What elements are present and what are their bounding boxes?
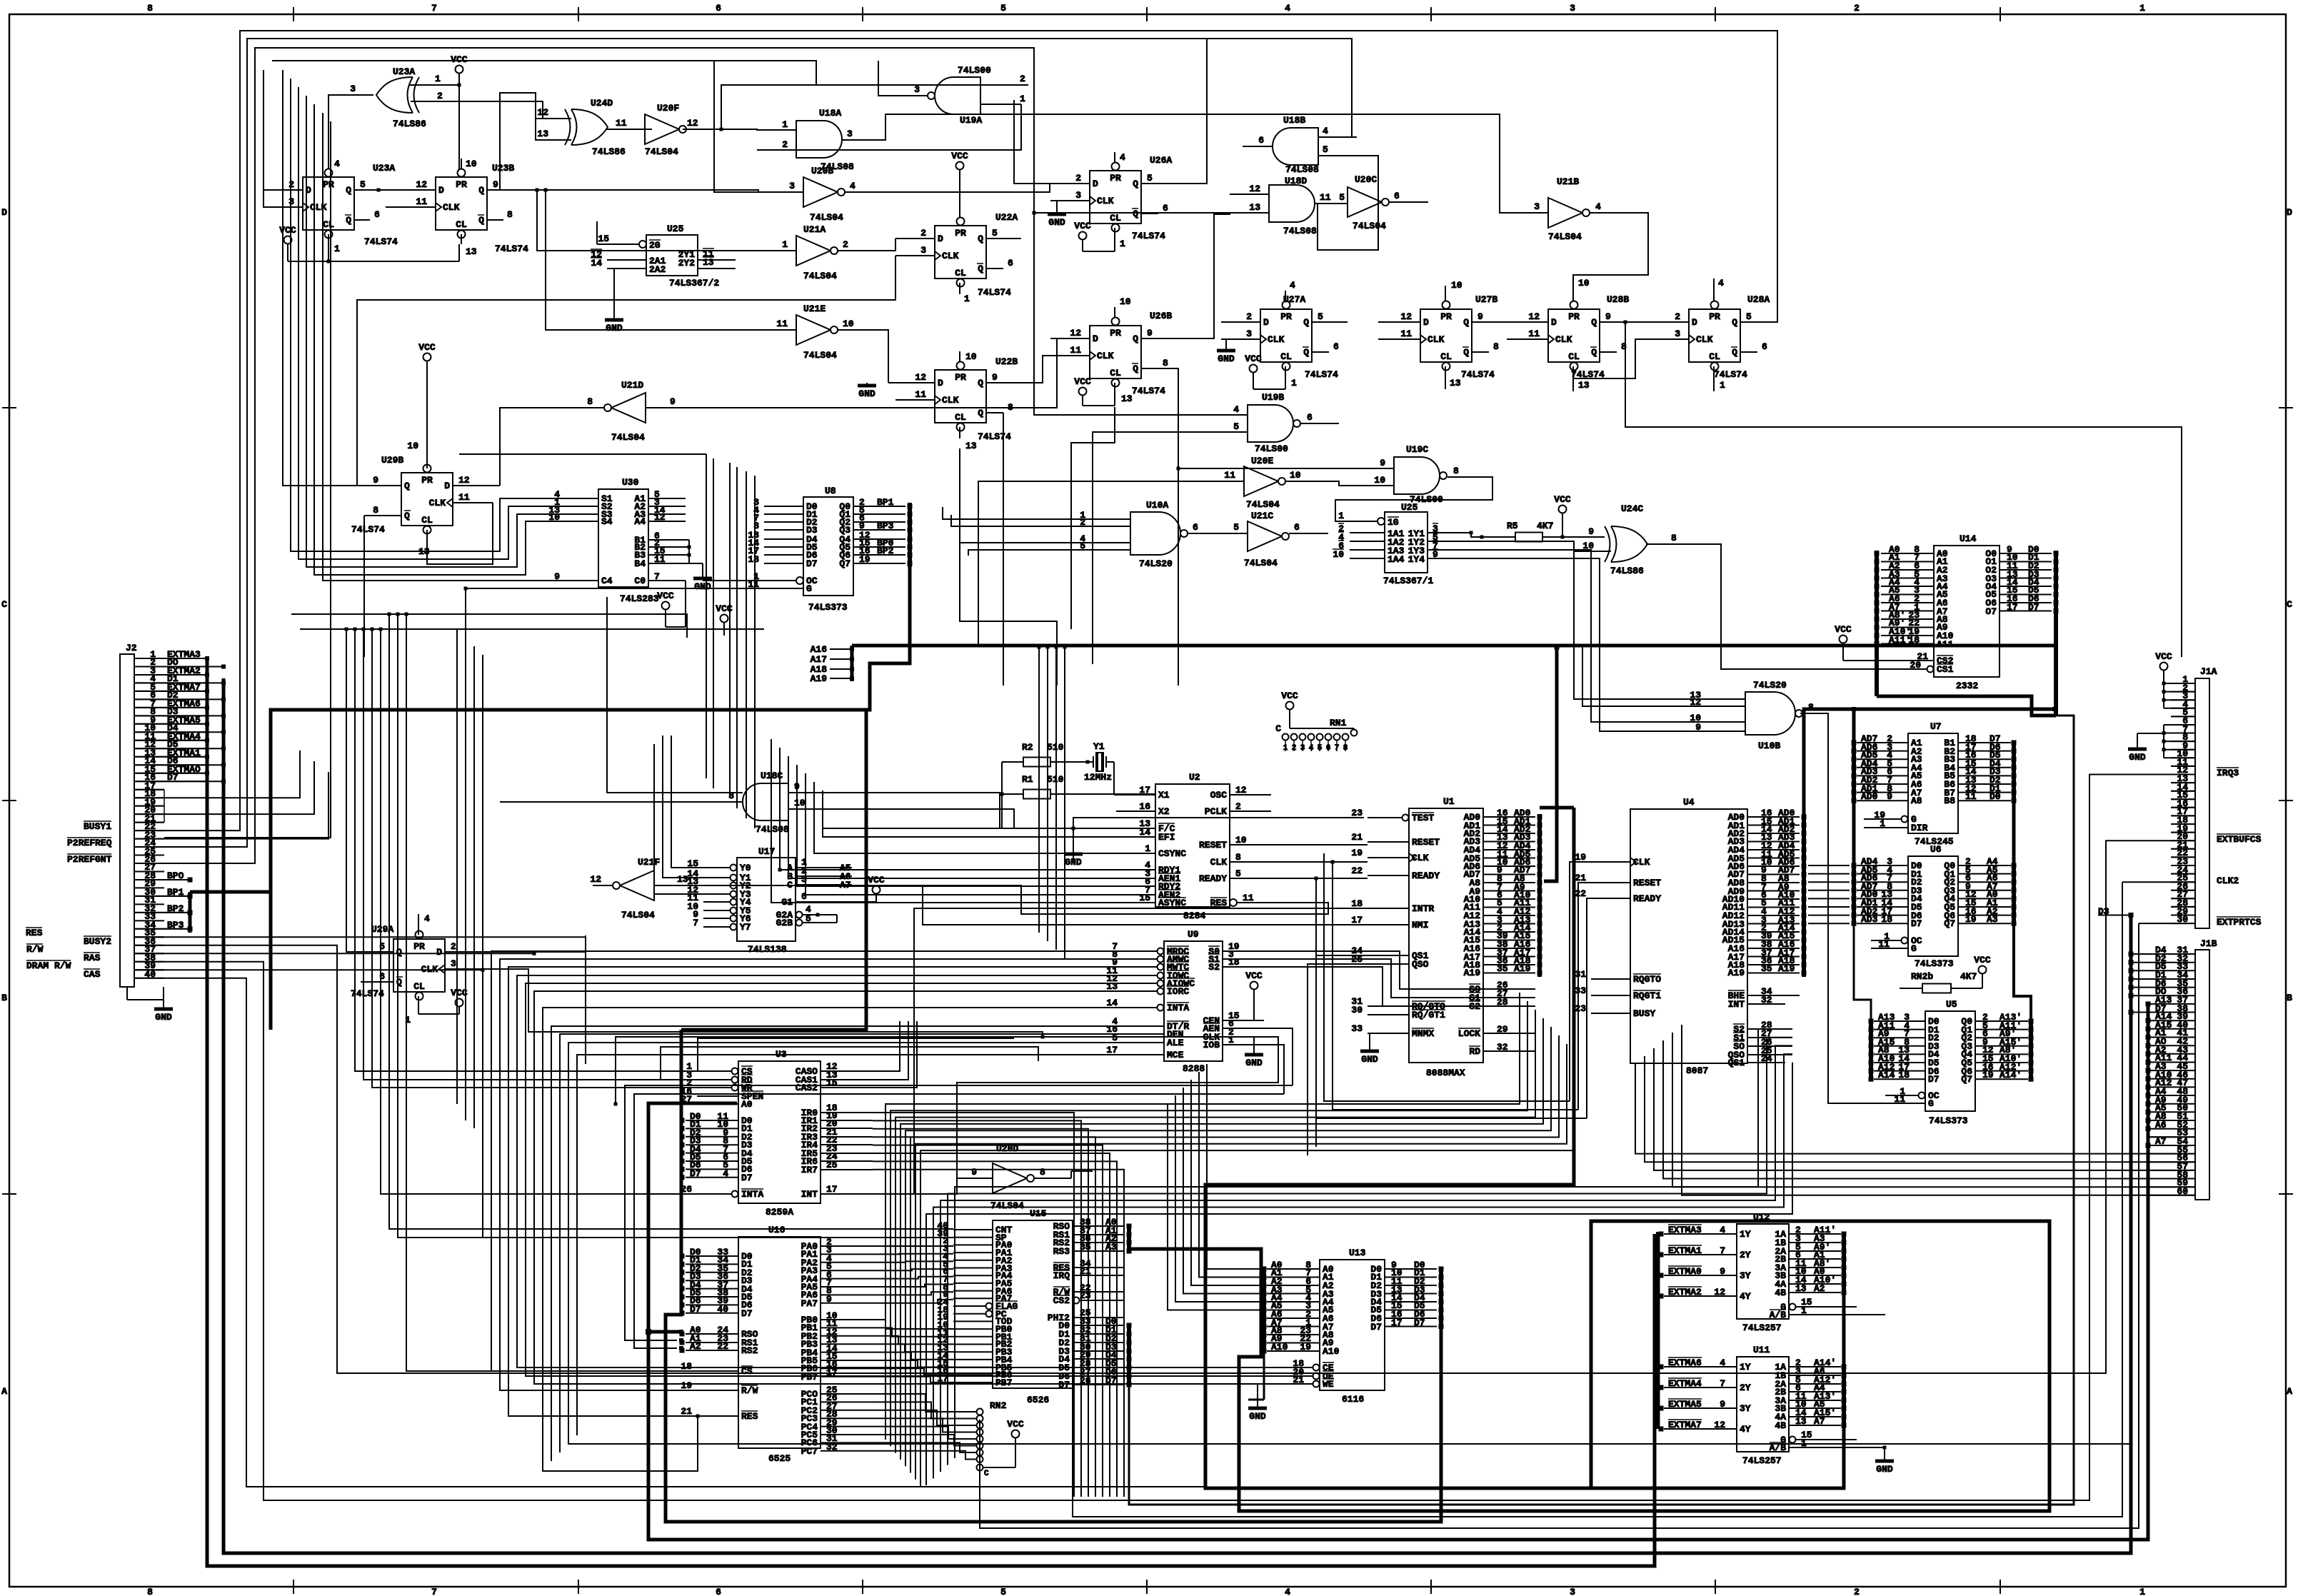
wire U16 PB1 to U15 PB1 — [873, 1328, 953, 1336]
bus A8-A15 U4 to U14 — [1804, 709, 2054, 814]
svg-text:1: 1 — [2139, 1587, 2145, 1596]
svg-text:GND: GND — [1218, 353, 1235, 364]
wire U21F in from U2 RES — [696, 885, 1328, 914]
wire U2 AEN1 bundle — [788, 756, 1116, 878]
svg-text:PCLK: PCLK — [1205, 806, 1227, 817]
svg-text:4: 4 — [1285, 3, 1290, 14]
wire D3 J1A29 — [2098, 913, 2134, 918]
svg-text:EXTMA3: EXTMA3 — [1668, 1225, 1702, 1235]
svg-text:U20E: U20E — [1251, 456, 1273, 466]
svg-text:Q: Q — [346, 185, 351, 196]
wire U4 bus to U6 D3 — [1808, 890, 1850, 891]
svg-text:Q: Q — [1133, 179, 1138, 189]
svg-text:CSYNC: CSYNC — [1158, 848, 1186, 859]
stubs J1B lower — [2149, 1137, 2195, 1195]
svg-text:QS1: QS1 — [1728, 1058, 1745, 1068]
fpu U4 (8087) — [1575, 797, 1800, 1076]
svg-text:U28B: U28B — [1607, 294, 1629, 305]
svg-text:12: 12 — [915, 372, 926, 383]
svg-text:VCC: VCC — [279, 225, 296, 236]
svg-text:5: 5 — [1235, 868, 1241, 879]
svg-text:R2: R2 — [1022, 742, 1033, 753]
svg-text:CL: CL — [1568, 351, 1580, 362]
svg-text:13: 13 — [1249, 202, 1260, 213]
svg-text:VCC: VCC — [657, 591, 674, 601]
svg-text:74LS08: 74LS08 — [1285, 164, 1319, 175]
VCC near U8 — [716, 603, 733, 636]
wire U28B Q to U28A D — [1600, 321, 1650, 324]
VCC rail above U23B — [451, 54, 468, 169]
svg-text:U18D: U18D — [1285, 176, 1307, 186]
svg-text:17: 17 — [826, 1184, 838, 1195]
svg-text:U9: U9 — [1188, 929, 1199, 940]
svg-text:14: 14 — [1139, 827, 1150, 838]
svg-text:VCC: VCC — [1074, 376, 1091, 387]
crystal Y1 12MHz — [1084, 741, 1114, 783]
GND at U30 B inputs — [688, 540, 713, 592]
svg-text:EXTMA6: EXTMA6 — [1668, 1357, 1702, 1368]
svg-text:Q: Q — [978, 378, 983, 388]
GND below J2 — [127, 987, 173, 1023]
svg-text:R5: R5 — [1507, 521, 1518, 531]
wire U2 READY to U1 — [1271, 877, 1368, 880]
wire U20E out to U19C in10 — [1325, 481, 1355, 486]
svg-text:CAS: CAS — [84, 969, 101, 980]
inverter U21F (74LS04) — [590, 857, 696, 920]
svg-text:9: 9 — [1433, 549, 1438, 560]
svg-text:MNMX: MNMX — [1412, 1028, 1434, 1039]
wire U3 CS up-right — [698, 1038, 1014, 1071]
wire U3 INTA vertical — [379, 628, 698, 1195]
svg-text:5: 5 — [1000, 1587, 1006, 1596]
svg-text:4: 4 — [1720, 1225, 1725, 1235]
wire vertical below U8 4 — [746, 571, 747, 818]
svg-text:11: 11 — [915, 389, 926, 400]
svg-text:INT: INT — [1728, 999, 1745, 1010]
svg-text:C4: C4 — [601, 576, 613, 586]
bus A16-A19 — [811, 644, 2057, 711]
wire U14 CS1 from U24C — [1660, 544, 1892, 669]
svg-text:CLK: CLK — [443, 202, 460, 213]
svg-text:D7: D7 — [690, 1304, 701, 1315]
wire J1B pin 59 staircase — [1672, 1033, 2149, 1187]
svg-text:19: 19 — [859, 554, 870, 565]
svg-text:U13: U13 — [1349, 1248, 1366, 1258]
svg-text:U29B: U29B — [381, 455, 403, 466]
svg-text:P2REFGNT: P2REFGNT — [67, 854, 112, 865]
svg-text:40: 40 — [717, 1304, 728, 1315]
svg-text:10: 10 — [965, 351, 977, 362]
wire U16 PA4 to U15 PA4 — [873, 1277, 953, 1279]
svg-text:1: 1 — [964, 293, 970, 304]
svg-text:7: 7 — [1720, 1378, 1725, 1389]
svg-text:9: 9 — [1605, 311, 1611, 322]
bus bar BP at U8 outputs — [908, 503, 913, 567]
svg-text:9: 9 — [1477, 311, 1483, 322]
svg-text:EXTMA1: EXTMA1 — [1668, 1245, 1702, 1256]
svg-text:10: 10 — [1374, 475, 1385, 486]
svg-text:PR: PR — [955, 228, 966, 239]
wire U16 PA5 to U15 PA5 — [873, 1285, 953, 1288]
svg-text:G: G — [1911, 943, 1917, 954]
wire U3 RD vertical — [362, 628, 698, 1080]
svg-text:74LS04: 74LS04 — [990, 1200, 1024, 1211]
svg-text:9: 9 — [1720, 1266, 1725, 1277]
svg-text:15: 15 — [1139, 893, 1150, 903]
wire U4 CLK feed — [1324, 853, 1591, 1101]
wire U1 TEST left — [1073, 818, 1364, 860]
svg-text:A: A — [1, 1386, 7, 1397]
svg-text:13: 13 — [1795, 1283, 1807, 1294]
svg-text:7: 7 — [431, 3, 437, 14]
svg-text:8288: 8288 — [1183, 1063, 1205, 1074]
svg-text:Q7: Q7 — [1961, 1074, 1972, 1085]
svg-text:D: D — [1423, 317, 1429, 328]
resistor R2 510 — [1002, 742, 1088, 767]
wire U10A in5 from BP — [968, 550, 1093, 556]
adder U30 (74LS283) — [548, 477, 689, 604]
svg-text:A19: A19 — [1728, 968, 1745, 978]
svg-text:Q: Q — [478, 185, 484, 196]
wire staircase U4 S/QS line 4 — [926, 1063, 1792, 1485]
svg-text:1: 1 — [1801, 1305, 1807, 1316]
wire U22B Q to U26B CLK — [1021, 356, 1050, 383]
svg-text:CAS2: CAS2 — [796, 1083, 818, 1093]
svg-text:4: 4 — [1290, 280, 1295, 291]
wire U10B in12 from A16 bus — [1582, 646, 1707, 706]
flip-flop U29B (74LS74) — [351, 342, 500, 557]
svg-text:CLK: CLK — [1696, 334, 1713, 345]
wire U19B in5 down — [1093, 432, 1208, 664]
svg-text:2: 2 — [843, 239, 848, 250]
svg-text:5: 5 — [1339, 192, 1345, 203]
wire loop CAS bottom — [134, 978, 1205, 1487]
svg-text:G2B: G2B — [776, 918, 793, 928]
svg-text:LOCK: LOCK — [1458, 1028, 1480, 1039]
svg-text:U10A: U10A — [1146, 500, 1168, 511]
svg-text:IRQ: IRQ — [1053, 1270, 1070, 1281]
wire A-bus tap down 2 — [1055, 646, 1058, 950]
svg-text:VCC: VCC — [1007, 1419, 1024, 1430]
svg-text:2: 2 — [1854, 1587, 1860, 1596]
svg-text:74LS373: 74LS373 — [808, 602, 848, 613]
wire U4 bus to U6 D7 — [1808, 923, 1850, 924]
svg-text:6: 6 — [716, 1587, 721, 1596]
resistor RN2b 4K7 — [1900, 955, 1991, 993]
svg-text:11: 11 — [1894, 1094, 1905, 1105]
svg-text:A8: A8 — [1911, 796, 1922, 806]
svg-text:A19: A19 — [1464, 968, 1481, 978]
latch U6 (74LS373) — [1852, 844, 2017, 969]
wire U13 A5 feed — [1168, 1103, 1260, 1310]
svg-text:U26A: U26A — [1150, 155, 1172, 166]
wire U10B out to U5 G — [1800, 713, 1885, 1103]
wire U15 SP vertical — [396, 613, 954, 1238]
inverter U21A (74LS04) — [757, 224, 878, 281]
svg-text:9: 9 — [1588, 526, 1594, 537]
GND at J1A pins 6-10 — [2128, 725, 2195, 763]
svg-text:Q: Q — [978, 234, 983, 244]
bus link U7-U6 left — [1852, 800, 1856, 865]
svg-text:IR7: IR7 — [801, 1165, 818, 1175]
wire XOR in1 to VCC rail — [409, 84, 459, 86]
svg-text:D7: D7 — [1928, 1074, 1940, 1085]
svg-text:13: 13 — [703, 257, 714, 268]
svg-text:74LS08: 74LS08 — [756, 824, 789, 835]
tpi U16 (6525) — [680, 1225, 873, 1464]
svg-text:CL: CL — [1110, 213, 1121, 224]
wire U16 PC2 to RN2 — [873, 1410, 977, 1425]
wire staircase U4 S/QS line 0 — [955, 1029, 1792, 1458]
svg-text:15: 15 — [598, 234, 609, 244]
svg-text:13: 13 — [965, 441, 977, 451]
svg-text:12: 12 — [1235, 785, 1247, 796]
wire U21D out to U29B D — [500, 408, 586, 486]
svg-text:4: 4 — [1323, 126, 1328, 136]
svg-text:Q: Q — [978, 264, 983, 274]
wire U9 DT/R down — [551, 1026, 1123, 1461]
cia U15 (6526) — [937, 1208, 1131, 1405]
VCC at J1A pins 1-4 — [2155, 651, 2195, 708]
wire into U18C in9 left — [607, 597, 743, 793]
svg-text:6: 6 — [1163, 203, 1168, 214]
svg-text:CLK: CLK — [942, 395, 959, 406]
svg-text:BP2: BP2 — [877, 546, 894, 556]
svg-text:3: 3 — [451, 958, 456, 969]
svg-text:U18A: U18A — [819, 108, 841, 119]
svg-text:READY: READY — [1633, 893, 1661, 904]
svg-text:74LS367/2: 74LS367/2 — [669, 278, 719, 288]
svg-text:5: 5 — [1000, 3, 1006, 14]
svg-text:CS2: CS2 — [1053, 1295, 1070, 1306]
wire U9 CLK feed — [957, 1037, 1278, 1178]
svg-text:GND: GND — [694, 581, 711, 592]
bus bar BP at J2 — [134, 878, 193, 933]
svg-text:U18B: U18B — [1283, 115, 1305, 126]
svg-text:D7: D7 — [741, 1173, 753, 1183]
svg-text:PR: PR — [421, 475, 433, 486]
wire J2 DRAM R/W into page — [134, 968, 485, 972]
VCC to CL rail U23A/U23B — [279, 225, 459, 264]
svg-text:1: 1 — [1880, 818, 1885, 829]
svg-text:74LS257: 74LS257 — [1742, 1323, 1782, 1333]
svg-text:2: 2 — [782, 139, 788, 150]
wire U18C out left — [500, 801, 714, 803]
svg-text:RQ/GT1: RQ/GT1 — [1412, 1010, 1445, 1020]
svg-text:8: 8 — [147, 1587, 153, 1596]
wire U16 PB5 to U15 PB5 — [873, 1360, 953, 1367]
wire U30 C4 feed — [323, 113, 564, 581]
svg-text:18: 18 — [681, 1361, 692, 1372]
svg-text:PR: PR — [1709, 311, 1720, 322]
svg-text:1: 1 — [782, 119, 788, 130]
svg-text:U21C: U21C — [1251, 511, 1273, 521]
svg-text:74LS04: 74LS04 — [810, 212, 843, 223]
svg-text:C: C — [2287, 599, 2292, 610]
svg-text:6: 6 — [1307, 412, 1313, 423]
wire U19C in9 left — [1177, 467, 1355, 471]
svg-text:4: 4 — [1285, 1587, 1290, 1596]
svg-text:13: 13 — [1795, 1416, 1807, 1427]
svg-text:CL: CL — [421, 515, 433, 526]
svg-text:21: 21 — [681, 1406, 692, 1417]
svg-text:12: 12 — [1249, 184, 1260, 194]
svg-text:U23A: U23A — [373, 163, 395, 174]
svg-text:9: 9 — [1147, 328, 1153, 338]
svg-text:U10B: U10B — [1758, 741, 1780, 751]
wire U3 IR1 right-down — [873, 1120, 1081, 1497]
flip-flop U26A (74LS74) — [1048, 152, 1177, 251]
svg-text:2G: 2G — [649, 240, 661, 251]
buffer U25 (74LS367/1) — [1333, 502, 1471, 586]
svg-text:5: 5 — [992, 228, 998, 239]
wire U18B in to U18D out — [1315, 156, 1378, 250]
wire CLK2 J1A25 to U15 PHI2 — [1073, 882, 2171, 1517]
inverter U21D (74LS04) — [586, 380, 686, 443]
svg-text:D: D — [1692, 317, 1697, 328]
xor gate U24D (74LS86) — [536, 98, 645, 157]
svg-text:8088MAX: 8088MAX — [1426, 1068, 1465, 1078]
svg-text:GND: GND — [2129, 752, 2146, 763]
svg-text:1: 1 — [782, 239, 788, 250]
svg-text:GND: GND — [1876, 1464, 1893, 1475]
svg-text:21: 21 — [1351, 832, 1363, 843]
bus A0-A3 U15 ring — [1129, 1221, 2049, 1511]
wire A-bus tap down 0 — [1038, 646, 1041, 933]
wire vertical above U2 0 — [706, 454, 707, 573]
svg-text:U20C: U20C — [1355, 174, 1377, 185]
svg-text:23: 23 — [1351, 808, 1363, 818]
wire U17 Y3 up — [654, 744, 703, 894]
svg-text:7: 7 — [693, 918, 698, 928]
svg-text:5: 5 — [1318, 311, 1323, 322]
flip-flop U22A (74LS74) — [895, 151, 1021, 304]
svg-text:18: 18 — [1228, 957, 1240, 968]
svg-text:VCC: VCC — [1281, 691, 1298, 701]
svg-text:A2: A2 — [690, 1341, 701, 1352]
svg-text:19: 19 — [1982, 1070, 1994, 1080]
svg-text:VCC: VCC — [418, 342, 436, 353]
svg-text:A19: A19 — [811, 673, 828, 684]
wire U9 INTA long loop — [543, 1008, 1123, 1471]
svg-text:VCC: VCC — [2155, 651, 2172, 662]
wire vertical above U2 4 — [746, 471, 747, 573]
svg-text:INTA: INTA — [1167, 1003, 1189, 1013]
wire staircase under U1 line 4 — [905, 1027, 1551, 1466]
svg-text:RESET: RESET — [1199, 840, 1227, 850]
svg-text:21: 21 — [1575, 873, 1586, 883]
svg-text:DIR: DIR — [1911, 823, 1928, 833]
svg-text:C: C — [984, 1470, 989, 1478]
svg-text:P2REFREQ: P2REFREQ — [67, 838, 112, 848]
svg-text:U27A: U27A — [1283, 294, 1305, 305]
wire U25 1Y4 to U10B in9 — [1471, 558, 1707, 731]
svg-text:5: 5 — [1233, 421, 1239, 432]
svg-text:12: 12 — [1714, 1420, 1725, 1430]
wire U23A to U24D a — [437, 101, 565, 119]
wire R5 to U25 1Y1 — [1470, 531, 1482, 538]
wire bundle left-center 2 — [473, 646, 475, 1128]
GND below U25 — [597, 221, 623, 333]
svg-text:GND: GND — [1361, 1054, 1378, 1065]
bus link U7-U6 right — [2012, 800, 2016, 865]
wire staircase U4 S/QS line 1 — [948, 1038, 1792, 1465]
wire J2 pin20 right — [164, 761, 314, 814]
svg-text:4B: 4B — [1775, 1288, 1786, 1298]
svg-text:Y1: Y1 — [1093, 741, 1105, 752]
wire U20B out to U26A D — [878, 184, 1050, 192]
wire U3 CS vertical — [353, 628, 698, 1072]
svg-text:Q: Q — [1732, 317, 1737, 328]
svg-text:13: 13 — [537, 129, 548, 139]
svg-text:U27B: U27B — [1475, 294, 1497, 305]
VCC at U9 CEN — [1245, 970, 1264, 1020]
wire loop BUSY1 top — [134, 31, 1777, 830]
svg-text:21: 21 — [1293, 1375, 1304, 1385]
svg-text:C0: C0 — [634, 576, 646, 586]
svg-text:Q: Q — [1591, 317, 1597, 328]
svg-text:3: 3 — [789, 181, 795, 191]
svg-text:74LS74: 74LS74 — [1305, 369, 1338, 380]
svg-text:12: 12 — [1714, 1287, 1725, 1298]
bus stubs at J1B — [2131, 915, 2148, 1250]
wire left bundle f — [164, 121, 331, 838]
svg-text:22: 22 — [717, 1341, 728, 1352]
wire U3 CAS2 — [864, 1021, 917, 1088]
svg-text:EXTPRTCS: EXTPRTCS — [2217, 917, 2262, 928]
svg-text:1Y: 1Y — [1740, 1229, 1751, 1240]
svg-text:D: D — [938, 378, 943, 388]
wire U30 S3 feed — [306, 96, 564, 567]
inverter U20E (74LS04) — [1205, 456, 1325, 510]
svg-text:18: 18 — [1881, 914, 1892, 925]
svg-text:TEST: TEST — [1412, 813, 1434, 823]
wire U16 PB3 to U15 PB3 — [873, 1344, 953, 1352]
svg-text:5: 5 — [1746, 311, 1752, 322]
nand gate U19C (74LS00) — [1355, 444, 1485, 505]
svg-text:1: 1 — [1338, 511, 1344, 521]
svg-text:74LS08: 74LS08 — [1283, 226, 1317, 236]
svg-text:U8: U8 — [825, 486, 836, 496]
svg-text:11: 11 — [1965, 791, 1977, 802]
svg-text:D7: D7 — [1370, 1322, 1382, 1332]
svg-text:1: 1 — [1145, 843, 1150, 854]
wire U19A out up — [878, 61, 893, 96]
bus bars at U7 — [1854, 743, 2014, 800]
wire U28B Q long right loop — [1624, 321, 2182, 658]
transceiver U7 (74LS245) — [1852, 721, 2017, 847]
wire U3 WR vertical — [371, 628, 698, 1088]
svg-text:INTR: INTR — [1412, 903, 1434, 914]
wire U25 1Y3 to U10B in10 — [1471, 550, 1707, 722]
svg-text:RD: RD — [1469, 1046, 1480, 1057]
svg-text:PR: PR — [1568, 311, 1580, 322]
wire staircase under U1 line 6 — [915, 1044, 1567, 1480]
svg-text:22: 22 — [1575, 888, 1586, 899]
svg-text:8284: 8284 — [1183, 910, 1205, 921]
svg-text:BP1: BP1 — [877, 497, 894, 508]
inverter U20F (74LS04) — [645, 103, 721, 157]
svg-text:PR: PR — [1110, 328, 1121, 338]
wire U10A in1 from BP — [943, 507, 1093, 519]
wire U2 F/C EFI bundle — [823, 791, 1116, 837]
svg-text:BUSY: BUSY — [1633, 1008, 1655, 1019]
clock generator U2 (8284) — [1116, 772, 1278, 921]
svg-text:74LS138: 74LS138 — [748, 944, 787, 955]
svg-text:22: 22 — [1351, 865, 1363, 876]
svg-text:5: 5 — [1147, 173, 1153, 184]
svg-text:1: 1 — [435, 74, 441, 84]
